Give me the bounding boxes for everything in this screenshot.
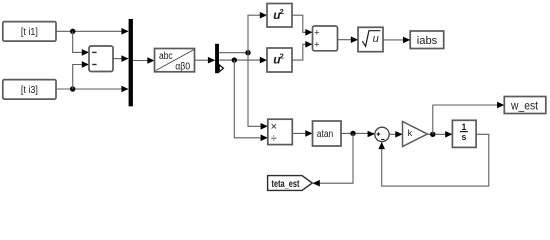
sum circle (+ -) [375,127,389,141]
wire sum S1 to mux [113,55,129,62]
from block [t i1] [3,22,56,41]
wire [t i1] to mux [56,28,129,35]
node j5 [350,131,355,136]
svg-text:atan: atan [317,128,334,140]
product block (x divide) [268,119,293,144]
wire gain to integrator [427,131,452,138]
svg-text:αβ0: αβ0 [175,62,190,73]
svg-text:abc: abc [159,51,173,62]
wire u2 bottom to sum S2 input 2 [292,41,313,60]
wire sqrt to iabs [383,37,410,44]
goto tag iabs [410,31,444,49]
sum S1 (minus minus) [89,46,113,72]
node j3 [245,50,250,55]
wire sum circle to gain k [389,131,402,138]
goto tag w_est [504,97,546,114]
math block u^2 bottom [267,48,292,72]
demux output 3 stub [219,65,223,72]
svg-text:iabs: iabs [417,35,438,47]
goto tag teta_est [268,176,313,191]
wire j2 to sum S1 input 2 [73,61,89,89]
svg-text:2: 2 [280,52,284,61]
wire demux out2 to u2 bottom block [219,57,267,64]
svg-text:teta_est: teta_est [272,178,300,190]
wire j4 down to product input 2 [234,60,267,141]
node j4 [232,57,237,62]
wire abc block to demux [195,57,216,64]
svg-text:1: 1 [461,122,466,132]
svg-text:k: k [408,128,413,138]
wire integrator feedback to sum circle bottom [378,134,488,186]
wire j1 to sum S1 input 1 [73,31,89,55]
gain k [403,122,428,147]
from block [t i3] [3,80,56,100]
svg-text:÷: ÷ [271,132,277,144]
node j2 [70,86,75,91]
svg-text:[t i3]: [t i3] [21,85,38,96]
transform block abc/alphabeta0 [155,49,195,73]
svg-text:+: + [314,40,319,50]
atan block [313,121,342,146]
sqrt block [358,27,383,51]
sum S2 (plus plus) [313,26,338,51]
integrator 1/s [452,120,476,147]
svg-text:w_est: w_est [510,100,539,112]
wire j3 down to product input 1 [248,53,268,130]
wire j5 down to teta_est [313,133,353,186]
wire u2 top to sum S2 input 1 [292,15,313,35]
wire product to atan [292,130,312,137]
svg-text:u: u [373,33,379,45]
wire j6 up to w_est [433,102,505,135]
wire atan to sum circle [341,131,375,138]
svg-text:[t i1]: [t i1] [21,27,38,38]
wire j3 up to u2 top block [248,12,267,53]
wire demux out1 [219,52,248,54]
math block u^2 top [267,4,292,28]
svg-text:×: × [271,121,277,133]
svg-text:s: s [461,132,466,142]
demux [215,44,219,73]
mux [129,19,133,106]
svg-text:2: 2 [280,7,284,16]
node j1 [70,29,75,34]
wire [t i3] to mux [56,86,129,93]
wire sum S2 to sqrt [338,36,359,43]
wire mux to abc block [133,57,155,64]
svg-text:+: + [314,28,319,38]
node j6 [430,132,435,137]
